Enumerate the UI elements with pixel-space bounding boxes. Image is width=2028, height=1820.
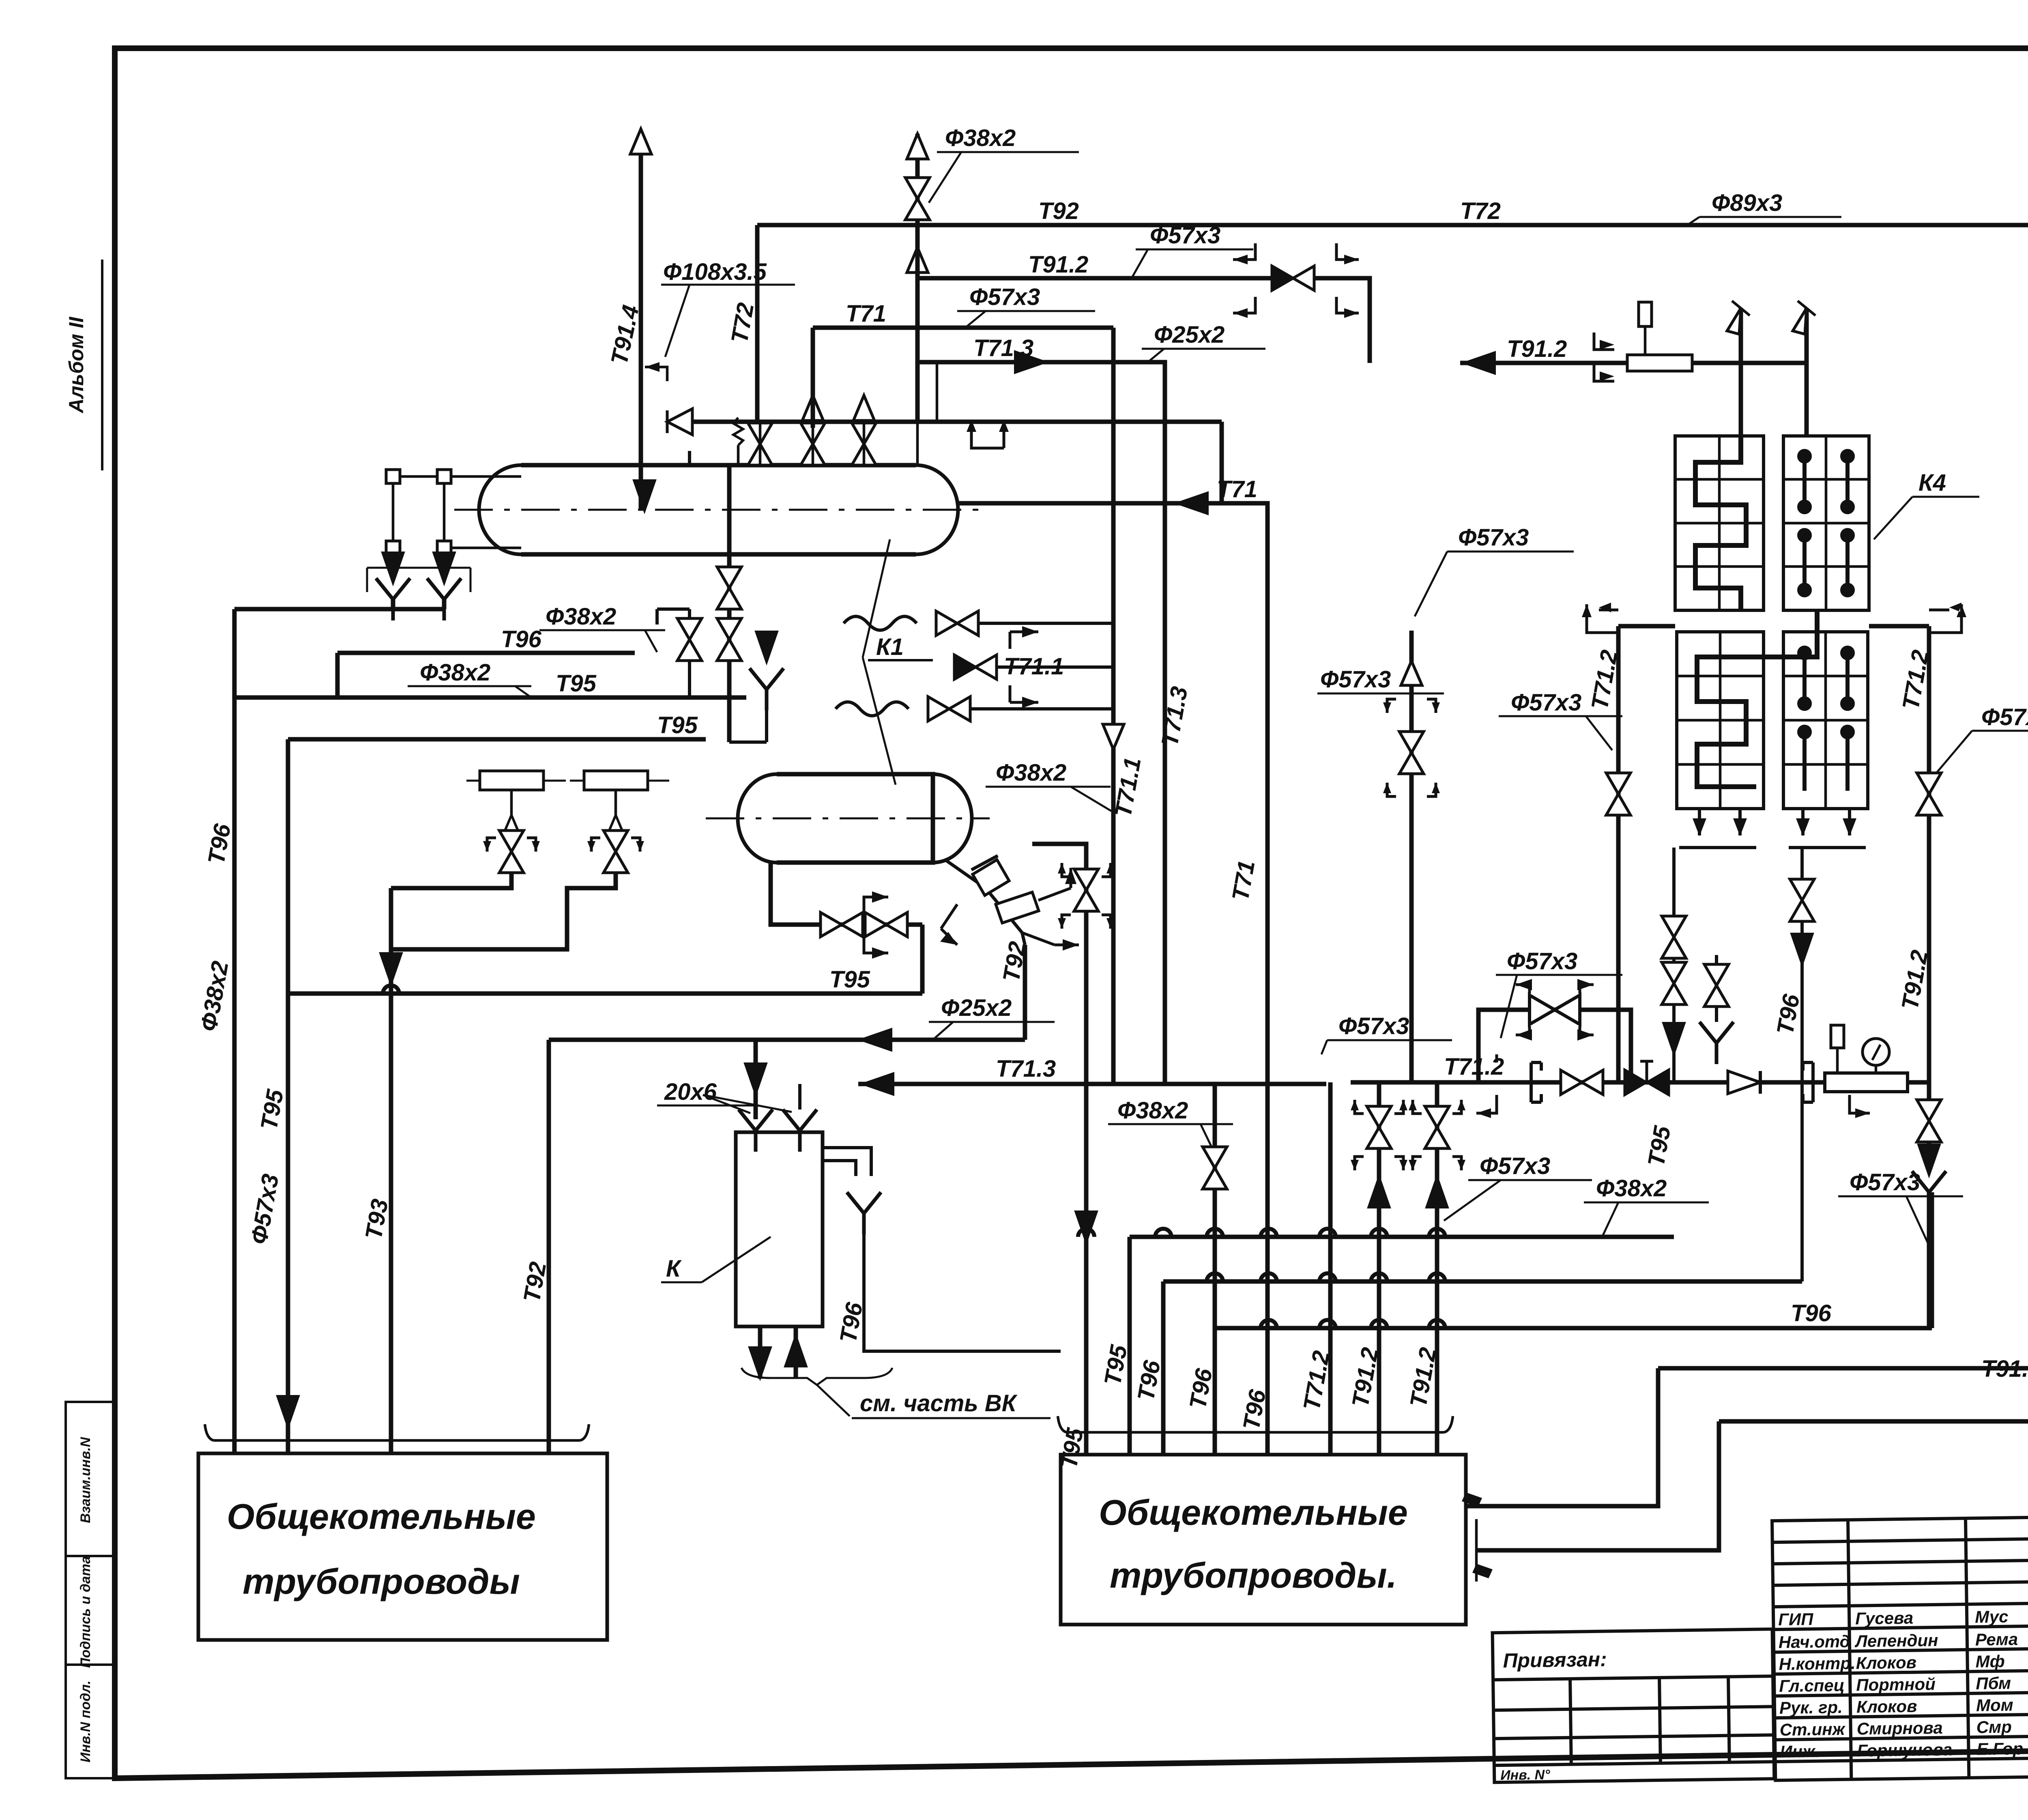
wire: T81.1 long line [1719, 1419, 2028, 1424]
svg-text:Т92: Т92 [1038, 198, 1079, 224]
K4 outlet headers with hooks [1618, 624, 1675, 629]
wire: drum top manifold [666, 420, 921, 424]
svg-text:Нач.отд: Нач.отд [1779, 1632, 1850, 1652]
level indicators [391, 771, 669, 949]
wire: T95 riser into box from T71.3 [1032, 844, 1086, 1455]
wire: T72 riser [755, 225, 760, 422]
thermometer on T91.2 [1644, 324, 1647, 355]
svg-text:Ф38х2: Ф38х2 [996, 760, 1066, 786]
privyazan block [1493, 1629, 1774, 1782]
svg-text:Портной: Портной [1856, 1674, 1936, 1695]
svg-text:Е.Гор: Е.Гор [1976, 1739, 2023, 1758]
wire: riser inside drum to lower area [727, 465, 732, 742]
K4 lower-left block [1677, 632, 1764, 809]
svg-text:Т95: Т95 [829, 966, 870, 993]
svg-text:Мус: Мус [1975, 1607, 2009, 1627]
seat valves below main (x3400, x3543) [1379, 1082, 1437, 1455]
wire: 796 drain line upper [337, 653, 635, 698]
svg-text:Т91.2: Т91.2 [1507, 336, 1567, 362]
safety impulse device [667, 409, 692, 435]
see part VK bracket [741, 1368, 892, 1385]
injector cluster at lower drum right [940, 856, 1079, 951]
wire: crossing jump arcs [383, 985, 1445, 1328]
wire: T71 right run from drum [958, 503, 1267, 1455]
wire: branch to K funnel 1 [754, 1040, 758, 1119]
svg-text:Ф38х2: Ф38х2 [420, 659, 490, 686]
seat arrows right of manifold [971, 420, 1004, 448]
manometer collector [1825, 1073, 1908, 1092]
svg-text:Т71.3: Т71.3 [973, 335, 1033, 361]
wire: vent stack above T92 [915, 134, 920, 225]
K4 upper-left block [1675, 436, 1764, 610]
svg-text:Т95: Т95 [657, 712, 698, 738]
wire: funnel collector to V1 [234, 599, 444, 609]
svg-text:Т71: Т71 [846, 300, 886, 327]
wire: T91.4 long line [1658, 1366, 2028, 1371]
funnel on feed line [1704, 964, 1729, 1007]
wire: K4 left block drains to T95 riser [1674, 809, 1756, 1082]
wire: V3 T93 riser [389, 888, 393, 1453]
svg-text:Ф57х3: Ф57х3 [1480, 1153, 1550, 1179]
wire: K4 left outlet riser T71.2 [1616, 626, 1621, 1082]
svg-text:Горшунова: Горшунова [1857, 1740, 1953, 1760]
wire: T71.3 bottom line [858, 1082, 1326, 1086]
economizer K box [657, 1079, 1061, 1379]
K4 upper-right block [1783, 436, 1869, 610]
gauge drain arrows and funnels [382, 552, 404, 584]
wire: feed main T71.2 [1351, 1080, 1929, 1085]
svg-text:трубопроводы: трубопроводы [243, 1561, 520, 1601]
svg-text:Ст.инж: Ст.инж [1779, 1719, 1845, 1739]
wire: T71.3 line with arrow [917, 362, 1165, 1084]
signature table [1772, 1517, 2028, 1780]
wire: K4 right outlet riser T71.2/T91.2 [1927, 626, 1931, 1082]
wire: T91.2 horizontal into K4 [1460, 361, 1807, 365]
svg-text:ГИП: ГИП [1778, 1610, 1814, 1629]
drum1 centerline [454, 509, 986, 511]
svg-text:К1: К1 [876, 634, 904, 660]
svg-text:Т91.2: Т91.2 [1028, 251, 1088, 278]
lower drum [706, 774, 990, 863]
wire: collector C2 T96 [1163, 1281, 1802, 1455]
svg-text:Т91.4: Т91.4 [1981, 1356, 2028, 1382]
box: Общекотельные трубопроводы (bottom left) [198, 1453, 607, 1640]
K box right outlet to funnel [823, 1148, 871, 1176]
svg-text:Рук. гр.: Рук. гр. [1779, 1698, 1843, 1717]
wire: T95 blowdown line y2450 [288, 863, 922, 994]
K box bottom arrows [760, 1326, 796, 1379]
svg-text:Альбом II: Альбом II [65, 316, 88, 414]
svg-text:Ф57х3: Ф57х3 [1511, 689, 1581, 716]
svg-text:трубопроводы.: трубопроводы. [1110, 1555, 1397, 1595]
svg-text:К4: К4 [1918, 470, 1946, 496]
wire: collector C3 T96 [1215, 1084, 1932, 1455]
drum1 bottom drain with valves [729, 740, 767, 744]
svg-text:Мф: Мф [1975, 1652, 2005, 1671]
svg-text:Ф57х3: Ф57х3 [1338, 1013, 1409, 1039]
svg-text:Ф38х2: Ф38х2 [1596, 1175, 1667, 1202]
valves on T95 drain riser [1662, 916, 1686, 958]
svg-text:Т96: Т96 [501, 626, 542, 652]
svg-text:Клоков: Клоков [1856, 1697, 1917, 1717]
wire: T91.4 feed riser [639, 143, 643, 509]
svg-text:Общекотельные: Общекотельные [1099, 1492, 1408, 1532]
svg-text:Ф57х3: Ф57х3 [1850, 1169, 1920, 1195]
svg-text:К: К [666, 1256, 682, 1282]
svg-text:Т96: Т96 [1791, 1300, 1832, 1326]
svg-text:Ф38х2: Ф38х2 [1117, 1097, 1188, 1124]
svg-text:Мом: Мом [1976, 1695, 2013, 1715]
svg-text:Лепендин: Лепендин [1854, 1631, 1938, 1651]
wire: K4 outer left riser Ф57х3 [1409, 631, 1414, 1082]
svg-text:Ф57х3: Ф57х3 [1458, 524, 1529, 551]
wire: step from middle box lower [1476, 1421, 1719, 1550]
left stamp column [66, 1402, 115, 1778]
check valve on main [1728, 1071, 1760, 1094]
svg-text:Ф108х3.5: Ф108х3.5 [663, 259, 767, 285]
svg-text:Рема: Рема [1975, 1629, 2018, 1649]
svg-text:Инв. N°: Инв. N° [1500, 1767, 1550, 1783]
svg-text:Смирнова: Смирнова [1856, 1718, 1943, 1738]
svg-text:Т72: Т72 [1460, 198, 1501, 224]
svg-text:Ф57х3: Ф57х3 [1320, 666, 1391, 693]
manifold valves [748, 423, 772, 465]
bypass loop with valve [1478, 1010, 1631, 1082]
svg-text:Ф38х2: Ф38х2 [945, 125, 1016, 151]
wire: step from middle box upper [1466, 1368, 1658, 1506]
drum drain valves [717, 567, 741, 609]
wire: T71.2 riser into box [1328, 1082, 1333, 1455]
entry bracket over middle box [1067, 1431, 1444, 1434]
svg-text:Ф25х2: Ф25х2 [941, 995, 1012, 1021]
entry bracket over left box [214, 1439, 580, 1442]
svg-text:Ф57х3: Ф57х3 [1150, 222, 1220, 249]
svg-text:Т71.3: Т71.3 [996, 1056, 1056, 1082]
svg-text:Инв.N подл.: Инв.N подл. [78, 1680, 93, 1762]
sampling lines K1 [836, 611, 1113, 721]
svg-text:Общекотельные: Общекотельные [227, 1496, 536, 1537]
wire: T71 line [813, 326, 1113, 330]
control valve on main [1624, 1061, 1669, 1095]
svg-text:Ф89х3: Ф89х3 [1712, 190, 1782, 216]
arrow tip T91.4 [630, 129, 651, 154]
wire: V1 riser Ф38х2 [232, 609, 237, 1453]
valve on T91.2 [1272, 266, 1314, 290]
wire: K4 right block drains 796 [1789, 809, 1866, 1281]
wire: 795 drain line [234, 695, 746, 700]
drum water level gauge supports [386, 470, 521, 568]
svg-text:Гл.спец: Гл.спец [1779, 1676, 1845, 1696]
svg-text:Т71.1: Т71.1 [1004, 653, 1064, 680]
wire: T95 line from V2 [288, 739, 706, 1453]
svg-text:Т71: Т71 [1217, 476, 1257, 502]
svg-text:Т71.2: Т71.2 [1444, 1054, 1504, 1080]
wire: T71.1 collector vertical [1111, 328, 1116, 1084]
valve on T96 drain riser [1790, 879, 1814, 921]
wire: T92 main to top-right box [757, 223, 2028, 227]
gate valve on feed main [1561, 1070, 1603, 1095]
svg-text:Ф25х2: Ф25х2 [1154, 322, 1225, 348]
wire: collector C1 T95 [1130, 1237, 1674, 1455]
svg-text:Смр: Смр [1976, 1717, 2012, 1737]
album underline [101, 260, 103, 470]
svg-text:Клоков: Клоков [1856, 1653, 1916, 1673]
svg-text:см. часть ВК: см. часть ВК [860, 1390, 1018, 1417]
boiler drum K1 upper [454, 465, 986, 554]
leader K1 [863, 539, 896, 785]
box: Общекотельные трубопроводы (bottom middle) [1061, 1455, 1466, 1625]
svg-text:Ф57х3: Ф57х3 [969, 284, 1040, 310]
svg-text:Гусева: Гусева [1855, 1608, 1914, 1628]
svg-text:Пбм: Пбм [1976, 1674, 2011, 1693]
svg-text:20х6: 20х6 [664, 1079, 717, 1105]
valve on T96 riser [1203, 1147, 1227, 1189]
svg-text:Т95: Т95 [556, 670, 597, 697]
wire: K4 inlet risers from T91.2 [1741, 308, 1807, 436]
K4 lower-right block [1783, 632, 1868, 809]
wire: T91.2 riser funnel below [1917, 1100, 1941, 1142]
svg-text:Привязан:: Привязан: [1503, 1648, 1607, 1672]
svg-text:Ф57х3: Ф57х3 [1507, 948, 1577, 974]
svg-text:Инж.: Инж. [1780, 1742, 1820, 1761]
svg-text:Подпись и дата: Подпись и дата [78, 1556, 93, 1668]
seat arrows around valve [1233, 243, 1359, 313]
svg-text:Н.контр.: Н.контр. [1779, 1654, 1856, 1674]
wire: T91.2 line to valve and down [917, 225, 1370, 363]
flanged unions on main [1531, 1062, 1541, 1102]
svg-text:Ф38х2: Ф38х2 [546, 603, 616, 630]
svg-text:Ф57х3: Ф57х3 [1981, 704, 2028, 730]
wire: T92 line from injector [549, 945, 1025, 1453]
svg-text:Взаим.инв.N: Взаим.инв.N [78, 1437, 93, 1523]
